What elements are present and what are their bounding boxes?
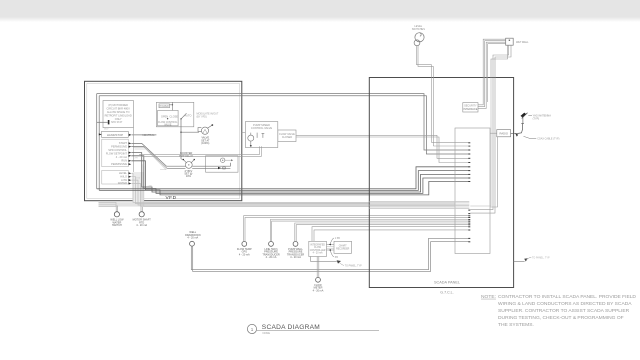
psc valve circle <box>248 135 254 141</box>
motor shaft rtd <box>140 207 142 212</box>
svg-text:LOW: LOW <box>121 178 127 182</box>
junction box wires bottom <box>488 44 506 78</box>
svg-text:NONE: NONE <box>263 331 271 335</box>
svg-text:INTEGRATED: INTEGRATED <box>310 243 325 246</box>
float switch symbol <box>415 33 424 42</box>
svg-text:PERMISSIVE: PERMISSIVE <box>111 144 127 148</box>
antenna label <box>528 115 532 117</box>
start permissive arrows <box>129 142 132 147</box>
svg-text:CONTROL VALVE: CONTROL VALVE <box>251 126 273 130</box>
svg-text:10%: 10% <box>186 175 192 178</box>
svg-text:COAX CABLE (TYP): COAX CABLE (TYP) <box>537 138 559 141</box>
start permissive terminals <box>111 141 127 148</box>
flow meter gpm sensor <box>242 242 247 247</box>
five wires to SCADA (mid group) <box>97 167 470 189</box>
CB box right-edge wire down <box>132 128 134 202</box>
top gray band <box>0 0 640 17</box>
flow meter circle below <box>316 257 318 278</box>
power box <box>159 104 170 108</box>
flow control valve inner box <box>158 110 179 125</box>
VFD inner liner <box>87 84 240 199</box>
svg-text:2#14: 2#14 <box>136 177 140 179</box>
flow meter wire pair <box>244 216 470 242</box>
line pressure transducer <box>269 242 274 247</box>
svg-text:PERMISSIVE: PERMISSIVE <box>111 162 127 166</box>
wire to pump speed control valve (psc feed) <box>139 146 259 155</box>
svg-text:4 - 20 mA: 4 - 20 mA <box>313 289 324 292</box>
wet well junction box <box>506 38 514 45</box>
svg-text:CONTRACTOR TO INSTALL SCADA PA: CONTRACTOR TO INSTALL SCADA PANEL. PROVI… <box>498 294 636 300</box>
svg-text:RETROFIT LINE/LOAD: RETROFIT LINE/LOAD <box>105 114 132 118</box>
right side bundle from top junction <box>478 78 483 105</box>
svg-text:RECORDER: RECORDER <box>336 248 349 250</box>
run permissive labels <box>111 159 127 166</box>
gray diagonal wires <box>134 148 168 169</box>
svg-text:CLOSE: CLOSE <box>170 116 179 119</box>
float switch wire pair <box>416 46 431 78</box>
chart recorder box <box>334 241 352 253</box>
svg-text:CIRCUIT BKR 480V: CIRCUIT BKR 480V <box>107 107 131 111</box>
svg-text:VALVE: VALVE <box>164 124 172 127</box>
terminal dots group 2 <box>468 210 470 243</box>
well drawdown transducer <box>185 231 201 240</box>
svg-text:1 PR: 1 PR <box>335 238 340 240</box>
level status arrows <box>129 172 132 184</box>
svg-text:CLOSED: CLOSED <box>282 136 292 139</box>
svg-text:TO PANEL, TYP: TO PANEL, TYP <box>532 257 550 260</box>
pump well wire pair <box>295 223 470 242</box>
svg-text:INTERFACE: INTERFACE <box>463 108 477 111</box>
power box junction wire <box>171 102 173 110</box>
wire pair flow valve closed to SCADA <box>296 135 469 158</box>
svg-text:SPD CONTROL: SPD CONTROL <box>108 148 127 152</box>
svg-text:SCADA PANEL: SCADA PANEL <box>434 280 460 284</box>
right pair out of terminal board <box>490 137 498 207</box>
svg-text:(P) MOTORIZED: (P) MOTORIZED <box>108 103 128 107</box>
svg-text:FLOW: FLOW <box>314 247 321 249</box>
svg-text:(BY VFD): (BY VFD) <box>197 115 207 118</box>
svg-text:4 - 20 mA: 4 - 20 mA <box>266 256 277 259</box>
terminal dots group 1 <box>468 142 470 182</box>
svg-text:RUN: RUN <box>121 159 127 163</box>
wire W1 : CB terminal to SCADA (long top run) <box>97 121 108 123</box>
pump control box lower right <box>206 156 238 172</box>
svg-text:SPD STAT: SPD STAT <box>111 121 123 124</box>
svg-text:TO PANEL, TYP: TO PANEL, TYP <box>345 264 362 267</box>
svg-text:FLOW SETPOINT: FLOW SETPOINT <box>106 151 128 155</box>
control valve V1 <box>198 128 201 132</box>
gray band rows ending in panel <box>369 200 469 202</box>
flow control valve assembly box <box>156 102 193 127</box>
svg-text:RADIO: RADIO <box>499 131 508 135</box>
gray band left tail <box>99 202 117 206</box>
to panel arrow right side <box>514 260 525 262</box>
svg-text:OPEN: OPEN <box>161 116 168 119</box>
wires between controller and recorder <box>326 244 334 246</box>
wire pair into pump box <box>192 163 230 166</box>
psc left stub <box>242 132 246 134</box>
valve V2 label below <box>184 170 193 178</box>
svg-text:WATER: WATER <box>118 181 127 185</box>
svg-text:START: START <box>119 141 128 145</box>
terminal strip box upper <box>102 139 129 167</box>
svg-text:HAND/STOP: HAND/STOP <box>107 133 123 137</box>
radio box <box>497 130 511 137</box>
pump well pressure transducer <box>293 242 298 247</box>
spd control labels <box>106 148 128 159</box>
svg-text:THE SYSTEMS.: THE SYSTEMS. <box>498 322 534 328</box>
svg-text:(TYP): (TYP) <box>533 117 540 120</box>
svg-text:1 PR: 1 PR <box>134 158 139 160</box>
svg-text:4 - 20 mA: 4 - 20 mA <box>239 253 250 256</box>
svg-text:PR: PR <box>335 257 339 259</box>
gray conduit band base <box>99 202 456 206</box>
svg-text:VFD: VFD <box>165 195 176 201</box>
svg-text:(100%): (100%) <box>201 142 209 145</box>
integrated flow controller box <box>309 241 327 256</box>
svg-text:SUPPLIER. CONTRACTOR TO ASSIS: SUPPLIER. CONTRACTOR TO ASSIST SCADA SUP… <box>498 308 630 314</box>
svg-text:1: 1 <box>251 327 254 332</box>
svg-text:SWITCH: SWITCH <box>112 224 122 227</box>
run permissive arrows <box>129 160 132 166</box>
hand/stop box <box>102 131 129 137</box>
neutral wire <box>132 134 157 136</box>
svg-text:4 - 20 mA: 4 - 20 mA <box>136 224 147 227</box>
svg-text:DURING TESTING, CHECK-OUT & PR: DURING TESTING, CHECK-OUT & PROGRAMMING … <box>498 315 624 321</box>
svg-text:AUTO: AUTO <box>185 114 192 117</box>
vertical wire bundle dropping from terminals <box>131 173 369 202</box>
wire W2 : hand/stop to SCADA (long top run) <box>99 133 101 135</box>
spd control arrow <box>129 152 132 157</box>
svg-text:ALLOW SPACE TO: ALLOW SPACE TO <box>107 110 130 114</box>
svg-text:4 - 20 mA: 4 - 20 mA <box>313 252 323 255</box>
svg-text:CONTROLLER: CONTROLLER <box>310 250 326 252</box>
level status labels <box>118 171 128 185</box>
float switch pair from top into panel <box>430 78 432 143</box>
VFD panel enclosure <box>85 81 242 200</box>
svg-text:4 - 20 mA: 4 - 20 mA <box>116 155 128 159</box>
flow valve closed box <box>278 130 296 142</box>
yagi antenna <box>521 113 527 118</box>
svg-text:POWER: POWER <box>160 105 169 108</box>
svg-text:WET WELL: WET WELL <box>516 41 529 44</box>
security interface box <box>463 103 478 112</box>
coax cable label <box>524 136 537 138</box>
extra bundle verticals <box>141 164 143 206</box>
wire pair start-permissive diagonal to booster valve <box>131 143 185 166</box>
svg-text:LEVEL: LEVEL <box>119 171 128 175</box>
radio stub to terminal board <box>490 132 497 134</box>
svg-text:HI/LO: HI/LO <box>120 174 127 178</box>
svg-text:NEUTRAL: NEUTRAL <box>143 133 156 137</box>
booster valve V2 <box>185 162 192 169</box>
svg-text:4 - 20 mA: 4 - 20 mA <box>290 256 301 259</box>
pump circle with arrow <box>221 158 225 162</box>
svg-text:4 - 20 mA: 4 - 20 mA <box>187 237 198 240</box>
svg-text:SWITCHES: SWITCHES <box>412 28 426 31</box>
coax from radio through panel wall <box>511 133 518 135</box>
controller wire pair up <box>312 227 469 242</box>
svg-text:NOTE:: NOTE: <box>481 294 496 300</box>
svg-text:SCADA DIAGRAM: SCADA DIAGRAM <box>262 324 320 331</box>
svg-text:480V: 480V <box>104 129 109 131</box>
1PR arrows <box>329 244 331 246</box>
arrow right of hand/stop <box>129 134 132 136</box>
SCADA panel enclosure <box>369 78 513 288</box>
svg-text:WIRING & LAND CONDUCTORS AS DI: WIRING & LAND CONDUCTORS AS DIRECTED BY … <box>498 301 632 307</box>
svg-text:G.7.C.L.: G.7.C.L. <box>440 291 453 295</box>
motorized circuit breaker box <box>103 101 134 128</box>
valve V1 label <box>201 137 210 145</box>
svg-text:1 PR: 1 PR <box>148 185 153 187</box>
title callout circle <box>247 324 256 333</box>
wire from auto down to junction <box>181 119 199 132</box>
line pressure wire pair <box>270 220 469 242</box>
pump speed control valve box <box>245 122 277 148</box>
terminal block on CB box <box>108 120 110 124</box>
terminal board inner rect <box>455 128 490 254</box>
svg-text:CHART: CHART <box>339 245 347 248</box>
booster valve label above <box>179 152 193 158</box>
wire tags <box>104 129 152 188</box>
terminal strip box lower <box>102 170 129 184</box>
conduit leader <box>311 257 337 262</box>
psc inner stem <box>256 133 258 138</box>
drawdown wire pair <box>191 238 469 269</box>
well low water switch <box>115 206 117 212</box>
junction box wires left <box>483 39 506 77</box>
title underline <box>257 330 379 332</box>
